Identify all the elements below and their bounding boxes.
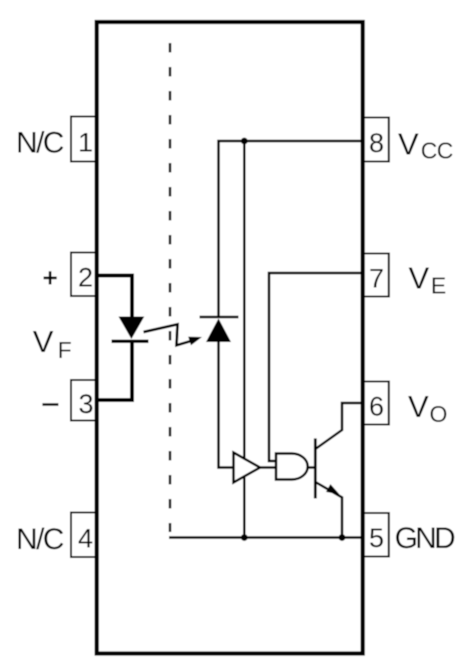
- svg-text:N/C: N/C: [16, 126, 64, 159]
- svg-text:V: V: [33, 324, 54, 359]
- svg-text:4: 4: [78, 524, 93, 554]
- svg-text:7: 7: [369, 264, 384, 294]
- svg-text:8: 8: [369, 128, 384, 158]
- svg-text:GND: GND: [395, 522, 455, 555]
- svg-text:V: V: [398, 127, 419, 162]
- svg-text:V: V: [408, 389, 429, 424]
- svg-text:6: 6: [369, 392, 384, 422]
- svg-text:5: 5: [369, 523, 384, 553]
- svg-text:V: V: [409, 261, 430, 296]
- svg-text:N/C: N/C: [16, 523, 64, 556]
- svg-text:2: 2: [78, 263, 93, 293]
- svg-text:F: F: [58, 337, 72, 363]
- svg-text:CC: CC: [421, 138, 453, 164]
- svg-text:3: 3: [78, 389, 93, 419]
- svg-text:1: 1: [78, 128, 93, 158]
- svg-text:O: O: [430, 401, 448, 427]
- svg-text:E: E: [431, 273, 446, 299]
